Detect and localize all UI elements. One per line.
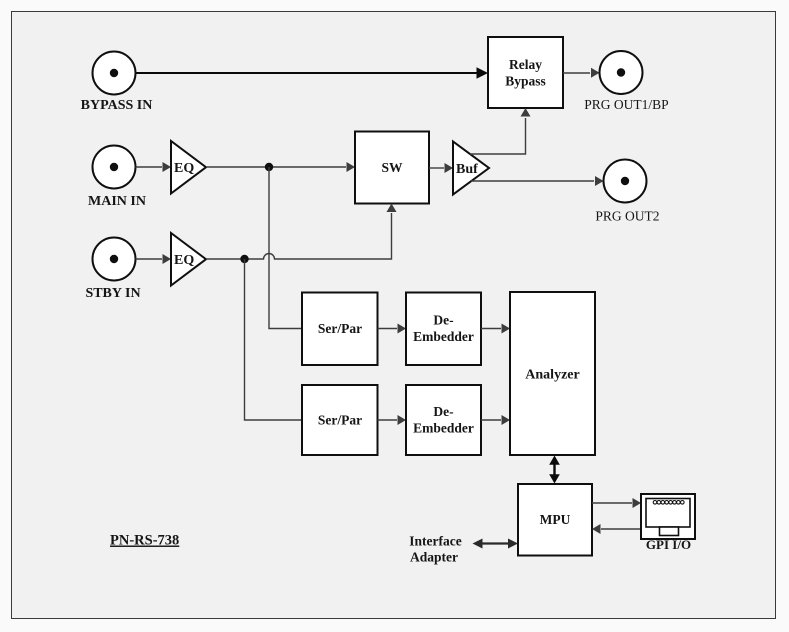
svg-text:Analyzer: Analyzer: [525, 368, 579, 383]
amp EQ2: [171, 233, 206, 286]
svg-text:SW: SW: [381, 160, 403, 175]
connector PRG OUT1/BP: [584, 51, 668, 112]
svg-text:PN-RS-738: PN-RS-738: [110, 533, 179, 549]
wire Ser/Par 1 to De-Embedder 1: [378, 324, 407, 334]
GPI I/O connector icon: [641, 494, 695, 552]
wire Buf to PRG OUT2: [471, 176, 604, 186]
connector BYPASS IN: [81, 52, 153, 114]
svg-text:Embedder: Embedder: [413, 421, 474, 436]
connector PRG OUT2: [595, 160, 659, 224]
wire Ser/Par 2 to De-Embedder 2: [378, 415, 407, 425]
svg-text:De-: De-: [433, 313, 453, 328]
connector STBY IN: [85, 238, 140, 302]
wire SW to Buf: [429, 163, 453, 173]
wire De-Embedder 2 to Analyzer: [481, 415, 510, 425]
svg-text:Adapter: Adapter: [410, 550, 458, 565]
block Ser/Par 2: [302, 385, 378, 455]
wire Relay Bypass to PRG OUT1: [563, 68, 600, 78]
svg-text:Embedder: Embedder: [413, 329, 474, 344]
block Relay Bypass: [488, 37, 563, 108]
wire Buf to Relay Bypass bottom: [470, 108, 531, 154]
svg-text:Relay: Relay: [509, 57, 542, 72]
block De-Embedder 2: [406, 385, 481, 455]
wire EQ1 to SW: [206, 162, 355, 172]
wire MAIN IN to EQ1: [136, 162, 172, 172]
wire GPI to MPU: [592, 524, 641, 534]
svg-text:De-: De-: [433, 404, 453, 419]
wire Interface Adapter to MPU double arrow: [473, 539, 519, 549]
svg-text:MPU: MPU: [540, 512, 571, 527]
svg-text:Buf: Buf: [456, 162, 478, 177]
block De-Embedder 1: [406, 293, 481, 366]
wire Analyzer to MPU double arrow: [549, 456, 560, 484]
svg-text:Ser/Par: Ser/Par: [318, 321, 362, 336]
svg-text:Bypass: Bypass: [505, 74, 546, 89]
block Analyzer: [510, 292, 595, 455]
junction main branch: [265, 163, 273, 171]
svg-text:GPI I/O: GPI I/O: [646, 537, 691, 552]
svg-text:Ser/Par: Ser/Par: [318, 413, 362, 428]
wire STBY IN to EQ2: [136, 254, 172, 264]
buffer Buf: [453, 142, 489, 195]
svg-text:Interface: Interface: [409, 534, 461, 549]
wire bypass line: [136, 67, 489, 79]
svg-text:EQ: EQ: [174, 161, 194, 176]
svg-text:STBY IN: STBY IN: [85, 286, 140, 301]
svg-text:PRG OUT1/BP: PRG OUT1/BP: [584, 97, 668, 112]
svg-text:PRG OUT2: PRG OUT2: [595, 209, 659, 224]
wire De-Embedder 1 to Analyzer: [481, 324, 510, 334]
svg-text:BYPASS IN: BYPASS IN: [81, 98, 153, 113]
wire stby branch down to Ser/Par 2: [245, 259, 303, 420]
wire main branch down to Ser/Par 1: [269, 167, 302, 329]
block SW: [355, 132, 429, 204]
amp EQ1: [171, 141, 206, 194]
svg-text:MAIN IN: MAIN IN: [88, 194, 146, 209]
block Ser/Par 1: [302, 293, 378, 366]
wire EQ2 to SW bottom with hop: [206, 204, 397, 260]
block MPU: [518, 484, 592, 556]
text Interface Adapter: [409, 534, 461, 565]
junction stby branch: [240, 255, 248, 263]
connector MAIN IN: [88, 146, 146, 210]
wire MPU to GPI: [592, 498, 641, 508]
svg-text:EQ: EQ: [174, 253, 194, 268]
